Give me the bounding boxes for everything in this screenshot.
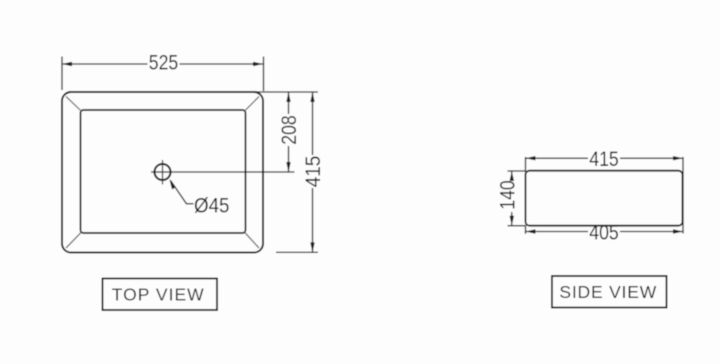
corner chamfer line bottom-right [245, 233, 259, 249]
left extension line (side view, up) [525, 157, 527, 172]
svg-text:405: 405 [589, 221, 619, 245]
dimension line 208 [288, 92, 290, 114]
SIDE VIEW label box [552, 276, 667, 308]
corner chamfer line top-right [245, 97, 259, 111]
dimension line 140 [511, 171, 513, 180]
drain center line extended right (extension for 208 dim) [151, 171, 295, 173]
dimension line 415 (side view) [526, 157, 684, 159]
right extension line (side view) [682, 157, 684, 234]
dim text 405 (side view) [588, 227, 620, 241]
dimension line 415 (top view) [312, 92, 314, 155]
bottom extension line for 140 dim [508, 225, 527, 227]
svg-text:415: 415 [301, 156, 325, 188]
drain hole circle [155, 164, 171, 180]
svg-text:415: 415 [589, 147, 619, 171]
top extension line for 140 dim [508, 170, 527, 172]
svg-text:TOP VIEW: TOP VIEW [112, 285, 205, 305]
leader line for drain diameter [171, 181, 194, 204]
corner chamfer line bottom-left [66, 233, 81, 249]
basin inner bowl edge (top view) [81, 110, 246, 233]
svg-text:140: 140 [495, 180, 519, 210]
svg-text:525: 525 [149, 51, 179, 75]
svg-text:Ø45: Ø45 [194, 194, 230, 218]
dim text 415 (side view) [588, 151, 620, 168]
TOP VIEW label box [103, 279, 218, 311]
dim text 525 [148, 52, 180, 71]
drain crosshair vertical [162, 160, 164, 185]
left extension line (side view, down) [525, 225, 527, 234]
svg-text:208: 208 [277, 115, 301, 145]
bottom extension line for 415 dim [276, 251, 318, 253]
basin profile (side view) [526, 171, 683, 226]
extension line right of 525 dim [263, 57, 265, 92]
corner chamfer line top-left [66, 97, 81, 111]
extension line left of 525 dim [61, 57, 63, 91]
dimension line 525 [62, 63, 263, 65]
basin outer rim (top view) [62, 92, 263, 253]
dimension line 405 (side view) [526, 231, 684, 233]
top extension line for 208/415 dims [256, 91, 318, 93]
svg-text:SIDE VIEW: SIDE VIEW [559, 282, 657, 302]
